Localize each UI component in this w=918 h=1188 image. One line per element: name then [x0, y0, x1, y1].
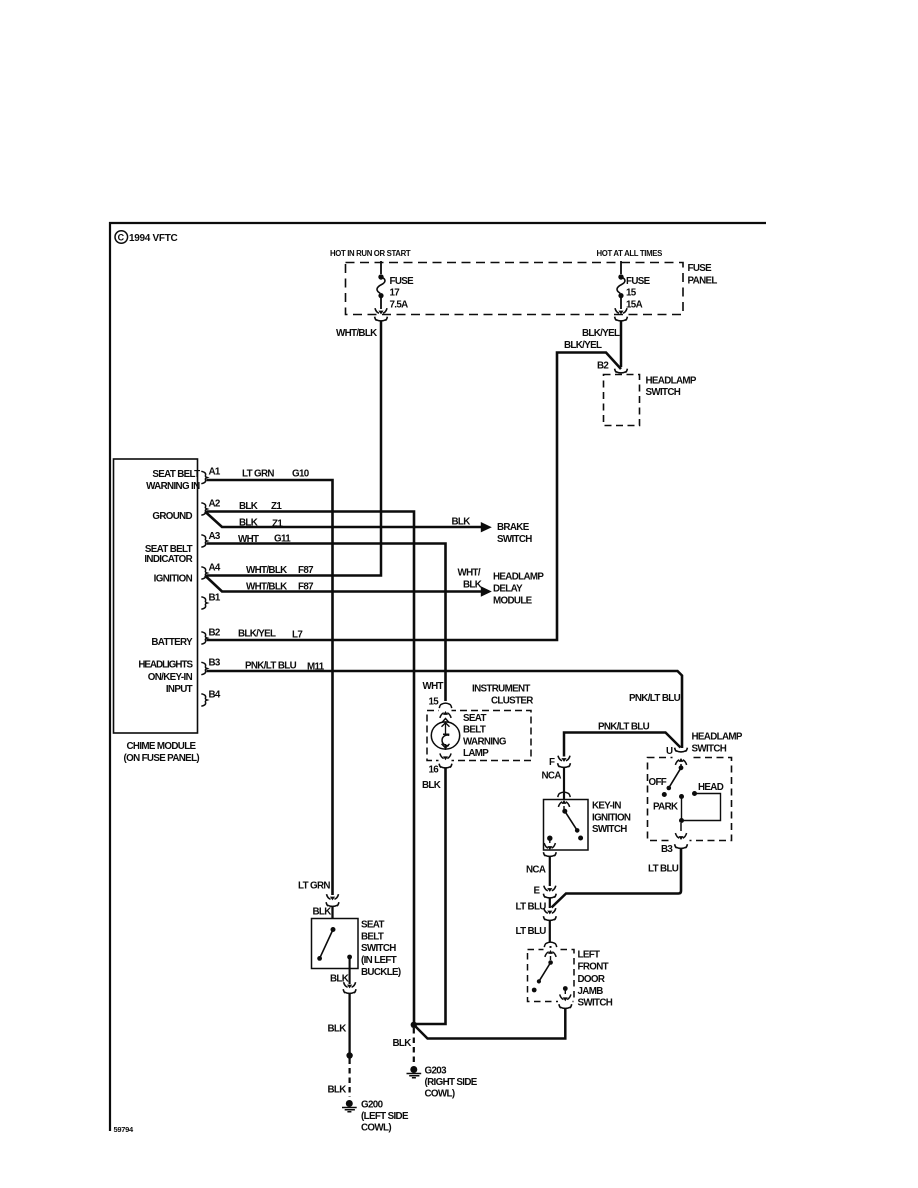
svg-text:(ON FUSE PANEL): (ON FUSE PANEL) [124, 753, 200, 764]
wire BLK Z1 from A2 down to G203 junction [207, 512, 415, 1024]
key-in ignition switch box [544, 800, 589, 851]
seat belt switch label [361, 920, 401, 979]
svg-text:C: C [118, 233, 125, 243]
wire BLK from pin 16 down to G203 junction [415, 769, 446, 1025]
wire BLK/YEL branch to chime B2 [207, 353, 622, 641]
svg-text:15A: 15A [626, 300, 643, 311]
wire BLK dashed to G200 [349, 1059, 351, 1098]
svg-text:BLK: BLK [313, 907, 332, 918]
svg-text:FUSE: FUSE [390, 276, 415, 287]
svg-text:WHT/BLK: WHT/BLK [246, 565, 287, 576]
svg-text:HEADLIGHTS: HEADLIGHTS [138, 660, 193, 671]
svg-text:HOT IN RUN OR START: HOT IN RUN OR START [330, 249, 411, 258]
instrument cluster label [472, 684, 533, 707]
svg-text:FRONT: FRONT [578, 962, 609, 973]
svg-text:SWITCH: SWITCH [692, 744, 727, 755]
svg-text:INSTRUMENT: INSTRUMENT [472, 684, 530, 695]
svg-text:DOOR: DOOR [578, 974, 605, 985]
svg-text:BLK: BLK [422, 780, 441, 791]
svg-text:CHIME MODULE: CHIME MODULE [127, 741, 197, 752]
inline connector LT GRN/BLK [326, 894, 339, 906]
svg-text:IGNITION: IGNITION [592, 813, 631, 824]
svg-text:SWITCH: SWITCH [361, 943, 396, 954]
svg-text:7.5A: 7.5A [390, 300, 409, 311]
wire LT BLU to door jamb switch [549, 921, 551, 943]
svg-text:15: 15 [626, 288, 637, 299]
svg-text:G10: G10 [292, 469, 310, 480]
svg-text:17: 17 [390, 288, 401, 299]
svg-text:HEADLAMP: HEADLAMP [646, 376, 697, 387]
pin F key-in switch connector [542, 756, 571, 782]
svg-text:HOT AT ALL TIMES: HOT AT ALL TIMES [597, 249, 663, 258]
svg-text:G11: G11 [274, 534, 291, 545]
left front door jamb switch dashed box [528, 950, 575, 1002]
cluster pin 16 [429, 764, 452, 776]
wire WHT/BLK F87 from A4 to headlamp delay module [205, 576, 481, 592]
seat belt switch contacts [317, 927, 352, 961]
svg-text:BLK: BLK [330, 974, 349, 985]
svg-text:BLK: BLK [328, 1024, 347, 1035]
svg-text:BLK/YEL: BLK/YEL [564, 340, 602, 351]
wire BLK/YEL fuse15 down to headlamp switch B2 [620, 321, 623, 367]
door jamb switch contacts [532, 950, 571, 1001]
svg-text:SWITCH: SWITCH [646, 387, 681, 398]
svg-text:DELAY: DELAY [493, 584, 523, 595]
border frame left edge [109, 222, 111, 1131]
svg-text:59794: 59794 [114, 1125, 134, 1134]
svg-text:B2: B2 [209, 628, 221, 639]
svg-text:BLK: BLK [239, 501, 258, 512]
svg-text:WARNING: WARNING [463, 737, 507, 748]
svg-text:BELT: BELT [361, 932, 384, 943]
svg-text:LAMP: LAMP [463, 748, 489, 759]
svg-text:SEAT: SEAT [463, 713, 486, 724]
node splice [346, 1052, 352, 1058]
svg-text:BLK: BLK [328, 1085, 347, 1096]
pin U headlamp switch [666, 746, 687, 757]
svg-text:HEAD: HEAD [698, 782, 724, 793]
svg-text:WHT/: WHT/ [458, 568, 481, 579]
svg-text:PNK/LT BLU: PNK/LT BLU [629, 693, 681, 704]
chime module caption [124, 741, 200, 764]
svg-text:SWITCH: SWITCH [497, 534, 532, 545]
arrow to brake switch [481, 522, 492, 532]
svg-text:IGNITION: IGNITION [154, 574, 193, 585]
copyright symbol [115, 231, 178, 244]
wire LT BLU from E down [549, 898, 551, 908]
fuse panel label [688, 263, 718, 287]
svg-text:LEFT: LEFT [578, 950, 601, 961]
svg-text:FUSE: FUSE [626, 276, 651, 287]
door jamb switch label [578, 950, 613, 1009]
pin B4 [201, 690, 221, 707]
key-in ignition switch label [592, 801, 631, 836]
wire from door jamb switch to G203 junction [415, 1009, 566, 1039]
wire WHT/BLK fuse17 down to chime A4 [207, 321, 382, 576]
headlamp switch contacts [649, 758, 724, 840]
svg-text:COWL): COWL) [361, 1123, 391, 1134]
svg-text:INPUT: INPUT [166, 684, 193, 695]
wire BLK to splice [348, 994, 350, 1056]
node junction at G203 [411, 1022, 417, 1028]
key-in ignition switch contacts [544, 800, 583, 850]
pin below door jamb switch [559, 1004, 572, 1008]
svg-text:LT BLU: LT BLU [516, 926, 547, 937]
pin A2 [201, 499, 221, 516]
svg-text:PANEL: PANEL [688, 276, 718, 287]
svg-text:M11: M11 [307, 662, 325, 673]
wire BLK into seat belt switch [331, 907, 333, 919]
seat belt warning lamp [431, 711, 507, 760]
svg-text:F87: F87 [298, 582, 314, 593]
svg-text:B1: B1 [209, 593, 221, 604]
svg-text:ON/KEY-IN: ON/KEY-IN [148, 672, 193, 683]
fuse 15 15A [615, 261, 651, 314]
svg-text:U: U [666, 746, 673, 757]
pin B3 [201, 658, 221, 675]
headlamp switch lower label [692, 732, 743, 755]
seat belt warning lamp dashed box [427, 711, 531, 761]
svg-text:PNK/LT BLU: PNK/LT BLU [598, 722, 650, 733]
pin below key-in switch [543, 852, 556, 856]
wire PNK/LT BLU from cluster to headlamp switch U [564, 733, 681, 757]
svg-text:JAMB: JAMB [578, 986, 604, 997]
svg-text:OFF: OFF [649, 777, 667, 788]
svg-text:INDICATOR: INDICATOR [144, 554, 192, 565]
pin A1 [201, 467, 221, 484]
svg-text:SEAT: SEAT [361, 920, 384, 931]
svg-text:15: 15 [429, 697, 440, 708]
wire PNK/LT BLU M11 from B3 to headlamp switch U [207, 671, 683, 748]
svg-text:(RIGHT SIDE: (RIGHT SIDE [425, 1077, 478, 1088]
svg-text:LT BLU: LT BLU [648, 864, 679, 875]
svg-text:Z1: Z1 [271, 501, 282, 512]
pin B1 [201, 593, 221, 610]
svg-text:PNK/LT BLU: PNK/LT BLU [245, 661, 297, 672]
svg-text:SEAT BELT: SEAT BELT [152, 469, 200, 480]
seat belt switch box [312, 919, 359, 969]
pin B2 [201, 628, 221, 645]
inline connector BLK [343, 982, 356, 993]
svg-text:WARNING IN: WARNING IN [146, 481, 200, 492]
pin B3 headlamp switch [661, 844, 687, 855]
svg-text:LT GRN: LT GRN [242, 469, 274, 480]
svg-text:BRAKE: BRAKE [497, 522, 530, 533]
wire BLK below seat belt switch [349, 957, 351, 984]
arrow to headlamp delay module [481, 586, 492, 596]
svg-text:PARK: PARK [653, 802, 678, 813]
headlamp switch lower dashed box [648, 758, 732, 841]
svg-text:BATTERY: BATTERY [151, 637, 193, 648]
border frame top edge [109, 222, 766, 224]
svg-text:A2: A2 [209, 499, 221, 510]
wire BLK dashed to G203 [413, 1028, 415, 1064]
wire LT BLU from B3 down and left to E node [552, 849, 682, 908]
svg-text:HEADLAMP: HEADLAMP [692, 732, 743, 743]
svg-text:WHT: WHT [423, 681, 444, 692]
fuse 17 7.5A [375, 261, 414, 314]
connector E [534, 886, 557, 898]
svg-text:KEY-IN: KEY-IN [592, 801, 621, 812]
svg-text:HEADLAMP: HEADLAMP [493, 572, 544, 583]
svg-text:MODULE: MODULE [493, 596, 533, 607]
cluster pin 15 [423, 681, 452, 708]
wire NCA from key-in switch to E [549, 857, 551, 886]
svg-text:GROUND: GROUND [152, 511, 192, 522]
svg-text:B3: B3 [661, 844, 673, 855]
svg-text:WHT/BLK: WHT/BLK [246, 582, 287, 593]
svg-text:A1: A1 [209, 467, 221, 478]
svg-text:(LEFT SIDE: (LEFT SIDE [361, 1111, 409, 1122]
svg-text:BELT: BELT [463, 725, 486, 736]
svg-text:G200: G200 [361, 1100, 384, 1111]
svg-text:BUCKLE): BUCKLE) [361, 967, 401, 978]
svg-text:NCA: NCA [542, 771, 562, 782]
pin A3 [201, 531, 221, 547]
svg-text:LT GRN: LT GRN [298, 881, 330, 892]
wire BLK Z1 from A2 to brake switch [205, 512, 481, 528]
svg-text:CLUSTER: CLUSTER [491, 696, 533, 707]
wire BLK/YEL L7 labels (B2 row) [238, 629, 303, 641]
svg-text:F: F [549, 757, 555, 768]
svg-text:L7: L7 [292, 630, 303, 641]
svg-text:LT BLU: LT BLU [516, 902, 547, 913]
svg-text:BLK: BLK [393, 1038, 412, 1049]
svg-text:FUSE: FUSE [688, 263, 713, 274]
svg-text:G203: G203 [425, 1066, 448, 1077]
svg-text:WHT/BLK: WHT/BLK [336, 328, 377, 339]
svg-text:BLK: BLK [239, 518, 258, 529]
svg-text:BLK/YEL: BLK/YEL [582, 328, 620, 339]
svg-text:E: E [534, 886, 541, 897]
svg-text:A4: A4 [209, 563, 221, 574]
wire LT GRN G10 from A1 down to seat belt switch [207, 480, 333, 895]
ground G200 [342, 1100, 409, 1134]
svg-text:A3: A3 [209, 531, 221, 542]
wire NCA from F to key-in switch [563, 768, 565, 800]
connector below fuse 15 [615, 317, 628, 321]
chime module box [114, 459, 198, 733]
svg-text:SWITCH: SWITCH [578, 998, 613, 1009]
svg-text:Z1: Z1 [272, 519, 283, 530]
svg-text:NCA: NCA [526, 865, 546, 876]
inline connector LT BLU [543, 908, 556, 920]
fuse panel dashed box [346, 263, 684, 315]
svg-text:B3: B3 [209, 658, 221, 669]
connector below fuse 17 [375, 317, 388, 321]
svg-text:F87: F87 [298, 565, 314, 576]
svg-text:B2: B2 [597, 361, 609, 372]
wire WHT G11 from A3 down to cluster pin 15 [207, 544, 446, 702]
svg-text:BLK: BLK [452, 517, 471, 528]
headlamp switch upper dashed box [604, 375, 640, 426]
svg-text:B4: B4 [209, 690, 221, 701]
ground G203 [407, 1066, 478, 1100]
wire WHT/BLK F87 from A4 (drawn with fuse17 wire) labels [246, 565, 314, 576]
svg-text:1994 VFTC: 1994 VFTC [129, 233, 178, 244]
pin A4 [201, 563, 221, 580]
svg-text:COWL): COWL) [425, 1089, 455, 1100]
svg-text:SWITCH: SWITCH [592, 824, 627, 835]
svg-text:WHT: WHT [238, 534, 259, 545]
svg-text:BLK/YEL: BLK/YEL [238, 629, 276, 640]
svg-text:BLK: BLK [463, 580, 482, 591]
svg-text:16: 16 [429, 765, 440, 776]
svg-text:(IN LEFT: (IN LEFT [361, 955, 397, 966]
